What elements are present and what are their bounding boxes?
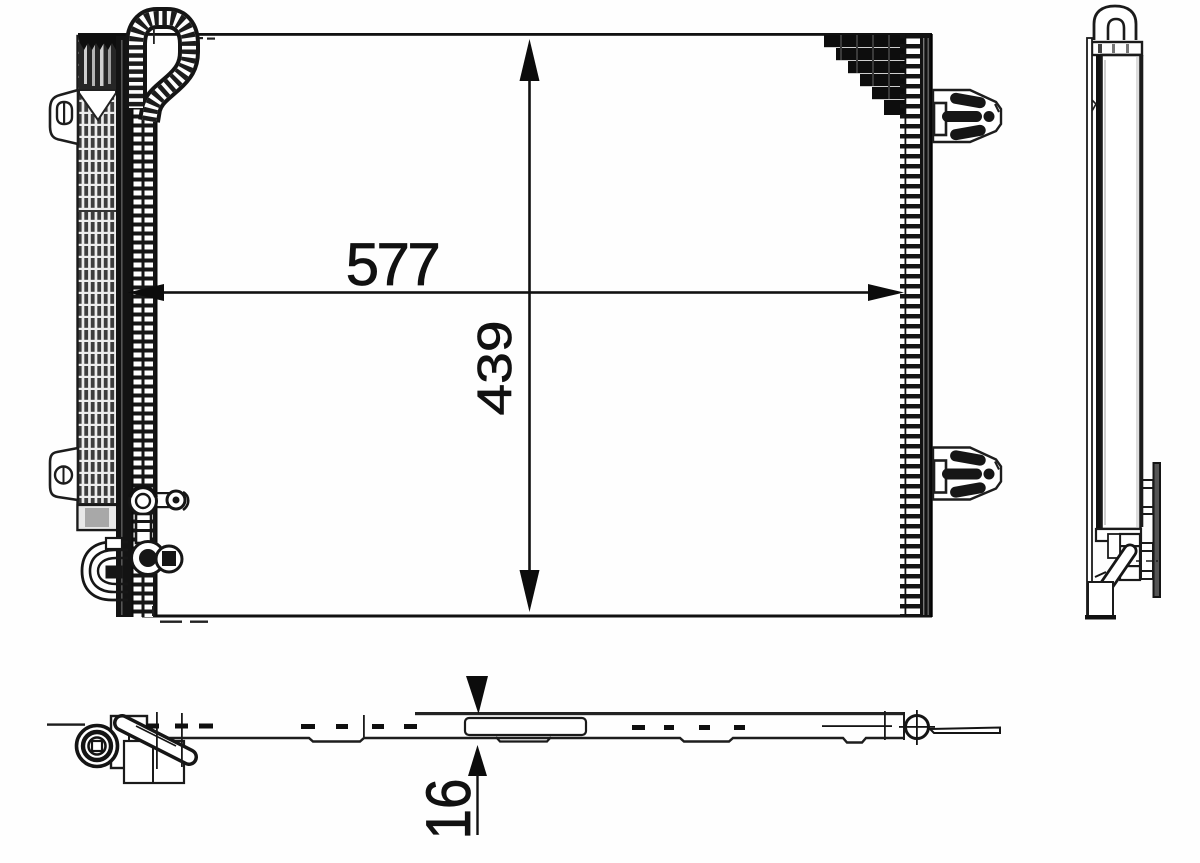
svg-text:16: 16	[413, 779, 483, 840]
bottom lower rect	[124, 741, 184, 783]
inlet pipe loop	[136, 18, 189, 121]
right dark strip (end plate)	[920, 34, 932, 617]
bottom right thin bar	[930, 728, 1000, 734]
side drier cylinder	[1102, 55, 1141, 529]
side mounting plate	[1154, 463, 1161, 597]
loop inner tick	[153, 28, 155, 44]
side diagonal pipe	[1095, 551, 1130, 589]
bottom-left horn (looped pipe end)	[82, 542, 128, 600]
dimension 439 line	[520, 39, 540, 612]
core bottom edge	[142, 615, 932, 618]
right ladder strip	[905, 34, 920, 617]
bottom right centerline	[822, 725, 892, 727]
side hook dome	[1094, 6, 1136, 40]
core bottom small tick	[152, 606, 154, 616]
side drier right edge line	[1142, 55, 1144, 527]
bottom-left fitting upper circle	[130, 487, 189, 514]
dimension 16 arrows	[466, 676, 488, 835]
receiver drier body	[78, 36, 118, 530]
bottom diagonal pipe	[122, 723, 189, 757]
bottom strip top edge	[415, 712, 905, 715]
upper-left mounting bracket	[50, 90, 78, 144]
receiver drier bottom cap	[78, 503, 118, 530]
horn upper tab	[106, 538, 122, 549]
bottom left fitting block	[111, 716, 147, 768]
bottom left stub line	[47, 723, 85, 725]
top-left jagged fin teeth	[78, 34, 128, 50]
side plate upper link	[1142, 480, 1153, 514]
bottom centerline ticks	[156, 711, 886, 769]
side clamp band	[1092, 42, 1142, 55]
fitting tube between	[136, 514, 151, 543]
left dark band (core left end plate)	[116, 36, 132, 617]
svg-text:439: 439	[468, 320, 522, 415]
receiver drier mid seam	[78, 210, 117, 212]
bottom strip bottom edge	[85, 738, 905, 743]
bottom right circle fitting	[899, 710, 935, 745]
side plate lower link	[1136, 543, 1158, 579]
left ladder tube (core left edge)	[132, 98, 158, 617]
lower-left mounting bracket	[50, 448, 78, 500]
side left notch	[1092, 100, 1096, 111]
core top edge	[78, 33, 932, 40]
receiver drier funnel	[79, 90, 116, 120]
lower-right mounting bracket	[933, 448, 1001, 500]
bottom middle bracket	[465, 718, 586, 742]
side bottom fitting block	[1096, 529, 1141, 580]
top-right stair fins	[824, 35, 906, 115]
side core strip	[1087, 38, 1092, 616]
bottom left fitting circles	[77, 726, 118, 767]
upper-right mounting bracket	[933, 90, 1001, 142]
bottom-left fitting lower circles	[132, 542, 183, 575]
svg-text:577: 577	[346, 231, 439, 298]
bottom centerline dashes	[146, 724, 745, 731]
side drier dark gap	[1096, 55, 1102, 529]
side foot	[1085, 582, 1116, 620]
dimension 577 line	[128, 284, 904, 301]
